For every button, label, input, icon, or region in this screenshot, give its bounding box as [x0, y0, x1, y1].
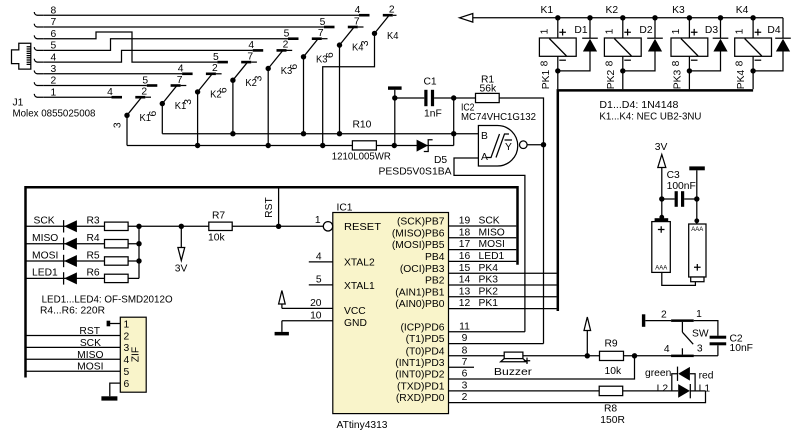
resistor R4 [105, 240, 129, 248]
buzzer [501, 352, 531, 364]
svg-text:(RXD)PD0: (RXD)PD0 [396, 393, 445, 404]
svg-text:J1: J1 [13, 98, 24, 109]
svg-text:1nF: 1nF [424, 109, 442, 120]
ISP harness (bold) [26, 187, 518, 377]
pin 10 GND stub [282, 320, 333, 322]
svg-text:MISO: MISO [32, 233, 58, 244]
svg-text:8: 8 [671, 60, 682, 66]
wire LED1 row [26, 277, 140, 279]
svg-text:4: 4 [124, 355, 130, 366]
LED LED1 [64, 272, 77, 284]
relay supply rail with off-page arrow [460, 14, 784, 23]
3V supply arrow at VCC [279, 291, 286, 309]
svg-text:PK1: PK1 [479, 298, 499, 309]
svg-text:VCC: VCC [344, 306, 366, 317]
TVS diode D5 [417, 140, 433, 152]
svg-text:16: 16 [459, 251, 471, 262]
svg-text:3V: 3V [175, 263, 188, 274]
pin 5 stub [309, 284, 333, 286]
svg-text:4: 4 [178, 64, 184, 75]
svg-text:Molex 0855025008: Molex 0855025008 [13, 109, 96, 120]
wire bus2 up to node B [453, 134, 455, 146]
svg-text:13: 13 [459, 286, 471, 297]
wire K3b pivot to bus1 [303, 57, 305, 134]
diode D3 [689, 15, 728, 71]
svg-text:6: 6 [289, 64, 300, 70]
wire R8 to LED pair [623, 390, 679, 392]
svg-text:56k: 56k [480, 84, 497, 95]
wire pin 3 to R8 [449, 390, 600, 392]
resistor R3 [105, 222, 129, 230]
svg-text:2: 2 [141, 87, 147, 98]
relay contact K2 pole 6 [213, 51, 257, 93]
wire K4b pivot jog to bus2 [323, 33, 375, 145]
wire K2b pivot to bus1 [232, 80, 234, 134]
LED L2 green [678, 384, 705, 398]
svg-text:19: 19 [459, 216, 471, 227]
svg-text:(SCK)PB7: (SCK)PB7 [397, 217, 445, 228]
svg-text:20: 20 [310, 298, 322, 309]
svg-text:6: 6 [148, 110, 159, 116]
wire ZIF MISO [26, 358, 121, 360]
svg-text:(T1)PD5: (T1)PD5 [406, 334, 445, 345]
svg-text:RST: RST [264, 197, 275, 218]
svg-text:2: 2 [283, 40, 289, 51]
svg-text:R4...R6: 220R: R4...R6: 220R [40, 305, 105, 316]
svg-text:red: red [699, 371, 714, 382]
svg-text:3: 3 [697, 344, 703, 355]
svg-text:3: 3 [124, 343, 130, 354]
svg-text:MOSI: MOSI [479, 239, 505, 250]
wire pin 15 PK4 [449, 272, 557, 274]
wire terminal to C3 [696, 170, 698, 199]
node 3V tap [179, 224, 184, 229]
diode D4 [753, 18, 791, 71]
wire bus1 (pole-6 bus) [162, 133, 453, 135]
wire node B to gate input B [454, 133, 479, 135]
connector J1 body [12, 43, 31, 69]
wire K1b pivot to bus1 [161, 104, 163, 134]
relay contact K1 pole 6 [142, 75, 186, 117]
svg-text:K3: K3 [672, 5, 685, 16]
svg-text:ATtiny4313: ATtiny4313 [337, 420, 388, 431]
wire K1a pivot to bus2 [126, 115, 128, 145]
svg-text:PESD5V0S1BA: PESD5V0S1BA [379, 167, 452, 178]
svg-text:R10: R10 [353, 120, 372, 131]
svg-text:7: 7 [354, 16, 360, 27]
svg-text:(INT1)PD3: (INT1)PD3 [395, 358, 444, 369]
resistor R8 [599, 386, 623, 395]
svg-text:(MISO)PB6: (MISO)PB6 [392, 228, 445, 239]
relay K3 coil [671, 15, 708, 89]
svg-text:6: 6 [124, 379, 130, 390]
svg-text:B: B [481, 131, 488, 142]
wire row 1 [43, 96, 111, 98]
wire row 8 [43, 14, 359, 16]
svg-text:1: 1 [604, 28, 615, 34]
svg-text:1: 1 [696, 309, 702, 320]
svg-text:D5: D5 [434, 155, 447, 166]
pushbutton SW [642, 309, 709, 357]
svg-text:10k: 10k [208, 232, 225, 243]
svg-text:2: 2 [661, 310, 667, 321]
svg-text:K2: K2 [605, 5, 618, 16]
wire ZIF SCK [26, 346, 121, 348]
wire Y down to pin 9 [543, 145, 545, 344]
svg-text:(ICP)PD6: (ICP)PD6 [400, 322, 444, 333]
wire pin 2 to LED return [449, 391, 706, 403]
svg-text:2: 2 [124, 331, 130, 342]
3V supply arrow (SW net) [584, 317, 591, 356]
op-amp IC2 NAND gate [478, 126, 527, 167]
wire pin 19 SCK [449, 225, 517, 227]
svg-text:R5: R5 [87, 250, 100, 261]
wire pin 13 PK2 [449, 296, 557, 298]
ZIF connector body [120, 317, 146, 392]
svg-text:LED1...LED4: OF-SMD2012O: LED1...LED4: OF-SMD2012O [42, 294, 173, 305]
svg-text:R6: R6 [87, 268, 100, 279]
relay contact K4 pole 6 [320, 16, 364, 58]
relay contact K2 pole 3 [178, 63, 222, 105]
relay K4 coil [735, 15, 772, 89]
LED MOSI [64, 255, 77, 267]
svg-text:(OCI)PB3: (OCI)PB3 [400, 264, 445, 275]
LED net labels [32, 216, 58, 279]
svg-text:10k: 10k [605, 366, 622, 377]
node dot on bus1 [451, 131, 456, 136]
IC1 ATtiny4313 body [333, 213, 449, 414]
svg-text:PK1: PK1 [541, 69, 552, 89]
relay K1 coil [539, 15, 576, 89]
svg-text:D3: D3 [705, 25, 718, 36]
svg-text:RESET: RESET [344, 222, 382, 233]
node R9 right junction [632, 353, 637, 358]
node Y junction [541, 142, 546, 147]
svg-text:SCK: SCK [479, 216, 500, 227]
svg-text:7: 7 [318, 28, 324, 39]
svg-text:(AIN0)PB0: (AIN0)PB0 [395, 299, 444, 310]
relay contact K3 pole 3 [248, 40, 292, 82]
svg-text:8: 8 [604, 60, 615, 66]
terminal stub right of C3 [689, 166, 705, 170]
svg-text:7: 7 [177, 75, 183, 86]
svg-text:5: 5 [142, 75, 148, 86]
svg-text:SCK: SCK [80, 338, 101, 349]
resistor R1 [454, 93, 544, 144]
wire pin 7 stub [449, 366, 475, 368]
wire MOSI LED row [26, 260, 140, 262]
svg-text:LED1: LED1 [479, 251, 505, 262]
wire pin 12 PK1 [449, 308, 557, 310]
wire pin 16 LED1 [449, 260, 517, 262]
wire SCK LED row / RESET line [26, 225, 324, 227]
svg-text:6: 6 [325, 52, 336, 58]
resistor R9 [600, 351, 624, 360]
junction dots bus1 [230, 131, 342, 136]
svg-text:3: 3 [183, 99, 194, 105]
svg-text:7: 7 [462, 357, 468, 368]
svg-text:R8: R8 [604, 403, 617, 414]
svg-text:RST: RST [79, 326, 100, 337]
wire RST breakout [278, 187, 280, 226]
svg-text:8: 8 [735, 60, 746, 66]
LED L1 red [672, 367, 695, 391]
svg-text:2: 2 [389, 5, 395, 16]
svg-text:PK2: PK2 [479, 286, 499, 297]
terminal stub at C1 [388, 86, 402, 89]
wire MISO LED row [26, 243, 140, 245]
diode D1 [558, 15, 598, 71]
svg-text:D1...D4: 1N4148: D1...D4: 1N4148 [599, 100, 678, 111]
svg-text:R3: R3 [87, 216, 100, 227]
ground at pin 10 [275, 321, 289, 336]
svg-text:XTAL1: XTAL1 [344, 281, 375, 292]
svg-text:(MOSI)PB5: (MOSI)PB5 [392, 240, 445, 251]
resistor R5 [105, 257, 129, 265]
wire row 4 with crossover jog [43, 50, 252, 62]
LED MISO [64, 238, 77, 250]
svg-text:AAA: AAA [691, 227, 703, 233]
svg-text:PB2: PB2 [425, 276, 445, 287]
svg-text:7: 7 [247, 51, 253, 62]
svg-text:ZIF: ZIF [131, 347, 142, 362]
pin 4 stub [309, 261, 333, 263]
svg-text:R7: R7 [212, 210, 225, 221]
junction dots bus2 [195, 143, 397, 148]
3V supply arrow (battery) [655, 142, 668, 199]
resistor R6 [105, 274, 129, 282]
svg-text:3: 3 [254, 75, 265, 81]
svg-text:PB4: PB4 [425, 252, 445, 263]
wire K2a pivot to bus2 [197, 92, 199, 146]
wire gate output Y [527, 144, 543, 146]
wire K4a pivot to bus1 [339, 45, 341, 134]
svg-text:XTAL2: XTAL2 [344, 258, 375, 269]
svg-text:17: 17 [459, 239, 471, 250]
svg-text:(INT0)PD2: (INT0)PD2 [395, 370, 444, 381]
svg-text:(T0)PD4: (T0)PD4 [406, 346, 445, 357]
svg-text:PK4: PK4 [479, 263, 499, 274]
svg-text:MISO: MISO [77, 350, 103, 361]
wire SW top to C2 [694, 321, 718, 336]
svg-text:AAA: AAA [655, 266, 667, 272]
svg-text:C1: C1 [424, 77, 437, 88]
wire pin 11 to gate A net [449, 331, 525, 333]
svg-text:1: 1 [315, 215, 321, 226]
svg-text:8: 8 [539, 60, 550, 66]
node RST junction [276, 224, 281, 229]
LED SCK [64, 220, 77, 232]
svg-text:3: 3 [462, 381, 468, 392]
svg-text:GND: GND [344, 318, 367, 329]
svg-text:1210L005WR: 1210L005WR [332, 152, 391, 163]
wire ZIF MOSI [26, 370, 121, 372]
svg-text:1: 1 [539, 28, 550, 34]
svg-text:PK2: PK2 [606, 69, 617, 89]
fuse R10 [352, 141, 376, 150]
svg-text:5: 5 [124, 367, 130, 378]
pin 20 VCC stub [282, 307, 333, 309]
svg-text:5: 5 [320, 17, 326, 28]
ZIF pin numbers [124, 319, 130, 390]
relay coil harness (bold) [558, 90, 753, 311]
relay K2 coil [604, 15, 641, 89]
svg-text:2: 2 [462, 392, 468, 403]
wire row 3 [43, 73, 182, 75]
svg-text:12: 12 [459, 298, 471, 309]
svg-text:5: 5 [316, 275, 322, 286]
wire row 7 [43, 26, 324, 28]
svg-text:(AIN1)PB1: (AIN1)PB1 [395, 287, 444, 298]
svg-text:150R: 150R [600, 415, 625, 426]
relay contact K1 pole 3 [107, 87, 151, 129]
svg-text:PK4: PK4 [736, 69, 747, 89]
svg-text:15: 15 [459, 263, 471, 274]
wire row 5 with crossover jog [43, 39, 288, 51]
battery BT2 [689, 199, 706, 282]
svg-text:L1: L1 [699, 384, 711, 395]
svg-text:MOSI: MOSI [32, 250, 58, 261]
wire row 2 [43, 85, 147, 87]
relay contact K4 pole 3 [355, 5, 399, 47]
capacitor C3 [659, 191, 699, 207]
wire pin 14 PK3 [449, 284, 557, 286]
battery BT1 [652, 199, 671, 272]
svg-text:K1...K4: NEC UB2-3NU: K1...K4: NEC UB2-3NU [599, 112, 701, 123]
svg-text:4: 4 [248, 40, 254, 51]
node 3V tap SW net [585, 353, 590, 358]
svg-text:100nF: 100nF [667, 181, 696, 192]
wire pin 9 to gate Y net [449, 343, 544, 345]
ground at ZIF pin 6 [101, 383, 120, 400]
svg-text:Y: Y [505, 142, 512, 153]
svg-text:5: 5 [284, 29, 290, 40]
diode D2 [623, 15, 663, 71]
svg-text:3: 3 [360, 40, 371, 46]
svg-text:1: 1 [671, 28, 682, 34]
svg-text:SW: SW [692, 328, 709, 339]
svg-text:4: 4 [316, 252, 322, 263]
wire pin 6 to SW net [449, 356, 635, 379]
svg-text:9: 9 [462, 333, 468, 344]
wire pin 8 buzzer line [449, 355, 718, 357]
svg-text:18: 18 [459, 227, 471, 238]
ZIF pin 1 stub with terminal [107, 321, 121, 327]
svg-text:4: 4 [355, 5, 361, 16]
svg-text:1: 1 [735, 28, 746, 34]
wire pin 17 MOSI [449, 249, 517, 251]
wire row 6 with crossover jog [43, 32, 217, 62]
svg-text:3: 3 [113, 122, 124, 128]
J1 pin numbers [51, 6, 57, 99]
svg-text:4: 4 [107, 87, 113, 98]
svg-text:14: 14 [459, 275, 471, 286]
svg-text:MOSI: MOSI [77, 362, 103, 373]
svg-text:L2: L2 [657, 384, 669, 395]
right net labels [479, 216, 505, 310]
svg-text:2: 2 [212, 63, 218, 74]
svg-text:PK3: PK3 [672, 69, 683, 89]
svg-text:K1: K1 [540, 5, 553, 16]
svg-text:MC74VHC1G132: MC74VHC1G132 [461, 112, 536, 123]
wire pin 18 MISO [449, 237, 517, 239]
svg-text:D4: D4 [767, 25, 780, 36]
svg-text:5: 5 [213, 52, 219, 63]
svg-text:D2: D2 [639, 25, 652, 36]
svg-text:R4: R4 [87, 233, 100, 244]
wire bus2 (pole-3 bus) [127, 145, 454, 147]
svg-text:6: 6 [462, 369, 468, 380]
junction dots LED common [136, 224, 141, 264]
svg-text:PK3: PK3 [479, 275, 499, 286]
svg-text:1: 1 [124, 319, 130, 330]
pin 1 inversion bubble [323, 222, 332, 231]
wire gate input A to pin 11 [454, 158, 525, 332]
svg-text:IC1: IC1 [337, 202, 353, 213]
svg-text:K4: K4 [736, 5, 749, 16]
right pin numbers [459, 216, 471, 404]
svg-text:10nF: 10nF [730, 343, 753, 354]
svg-text:C3: C3 [667, 170, 680, 181]
IC1 left pin names [344, 222, 382, 329]
wire LED anode common [138, 226, 140, 278]
resistor R7 [209, 222, 232, 230]
svg-text:green: green [645, 368, 672, 379]
J1 pin hooks [34, 12, 43, 97]
wire K3a pivot to bus2 [267, 69, 269, 146]
svg-text:R9: R9 [605, 339, 618, 350]
wire terminal to C1 node [394, 90, 396, 98]
wire node down to bus1 [453, 98, 455, 134]
svg-text:D1: D1 [574, 25, 587, 36]
ZIF net labels [77, 326, 103, 373]
capacitor C2 [710, 336, 727, 356]
node B junction [451, 95, 456, 100]
wire C1 node down to bus2 [394, 98, 396, 146]
wire ZIF RST [26, 335, 121, 337]
svg-text:Buzzer: Buzzer [494, 367, 533, 378]
svg-text:(TXD)PD1: (TXD)PD1 [397, 382, 445, 393]
svg-text:K4: K4 [387, 31, 399, 42]
svg-text:6: 6 [218, 87, 229, 93]
relay contact K3 pole 6 [284, 28, 328, 70]
svg-text:11: 11 [459, 321, 470, 332]
svg-text:SCK: SCK [34, 216, 55, 227]
svg-text:3V: 3V [655, 142, 668, 153]
capacitor C1 [395, 90, 454, 106]
svg-text:MISO: MISO [479, 227, 505, 238]
IC1 right pin names [392, 217, 445, 405]
3V supply arrow (LED common) [175, 226, 188, 274]
svg-text:8: 8 [462, 345, 468, 356]
svg-text:LED1: LED1 [32, 268, 58, 279]
svg-text:4: 4 [664, 344, 670, 355]
svg-text:10: 10 [310, 310, 322, 321]
wire battery series link [662, 272, 696, 285]
node C1 left [392, 95, 397, 100]
